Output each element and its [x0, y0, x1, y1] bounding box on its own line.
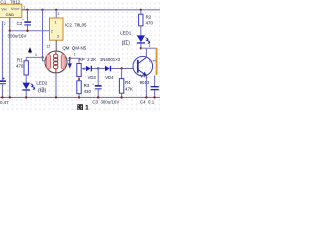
svg-text:VIN: VIN — [1, 6, 7, 11]
wire VD4 to base — [111, 68, 133, 70]
svg-text:VOUT: VOUT — [11, 6, 20, 11]
svg-text:3: 3 — [57, 35, 59, 39]
svg-text:C1 7812: C1 7812 — [0, 0, 20, 5]
svg-text:(绿): (绿) — [38, 87, 47, 94]
socket arrow down (right) — [68, 59, 71, 68]
node rail junction C — [140, 9, 142, 11]
svg-text:LED1: LED1 — [120, 31, 132, 36]
wire sensor bottom to ground rail — [55, 73, 57, 97]
wire RP bottom to R3 — [78, 77, 80, 81]
resistor R4 — [119, 69, 123, 98]
wire collector lead — [145, 48, 147, 57]
wire emitter to ground rail — [145, 76, 147, 98]
svg-text:C2: C2 — [17, 21, 23, 26]
svg-text:1: 1 — [74, 53, 76, 57]
svg-text:1: 1 — [149, 59, 151, 63]
svg-text:QM QM-N5: QM QM-N5 — [62, 45, 86, 50]
LED2 green — [22, 83, 34, 98]
resistor R2 — [139, 10, 143, 36]
svg-text:VD4: VD4 — [105, 75, 114, 80]
svg-text:LED2: LED2 — [36, 80, 48, 85]
socket arrow up (left) — [29, 48, 32, 53]
node rail junction B — [55, 9, 57, 11]
gas sensor QM-N5 — [45, 51, 67, 73]
wire junction to R1 — [26, 56, 42, 58]
node C2 bottom junction — [26, 30, 28, 32]
node LED1 junction — [140, 47, 142, 49]
wire IC2 input pin — [55, 10, 57, 18]
svg-text:300u/16V: 300u/16V — [8, 34, 27, 39]
svg-text:430: 430 — [84, 89, 92, 94]
IC1 7812 regulator box — [0, 4, 22, 17]
svg-text:9013: 9013 — [140, 80, 150, 85]
capacitor C3 — [92, 69, 102, 98]
svg-text:R2: R2 — [146, 15, 152, 20]
svg-text:2: 2 — [51, 30, 53, 34]
wire ground branch to IC2 — [10, 30, 50, 32]
svg-text:2: 2 — [4, 22, 6, 26]
diode VD4 — [98, 66, 111, 72]
potentiometer RP — [77, 64, 86, 77]
svg-text:1: 1 — [149, 44, 151, 48]
wire +12V drop to sensor node — [42, 10, 44, 58]
node RP/R3 junction — [78, 78, 80, 80]
svg-text:C3 300u/16V: C3 300u/16V — [92, 100, 119, 105]
wire junction to sensor left pin — [43, 57, 46, 60]
node sensor-left junction — [41, 56, 43, 58]
resistor R3 — [77, 81, 81, 98]
resistor R1 — [24, 57, 28, 82]
capacitor C4 — [151, 75, 159, 97]
svg-text:1: 1 — [23, 5, 25, 9]
wire IC2 output to sensor heater — [55, 40, 57, 51]
svg-text:1: 1 — [55, 21, 57, 25]
svg-text:470: 470 — [146, 21, 154, 26]
node rail dots — [1, 96, 156, 98]
node VOUT junction — [26, 9, 28, 11]
svg-text:12: 12 — [46, 44, 50, 48]
transistor VT1 — [133, 56, 153, 76]
wire VOUT stub — [22, 9, 28, 11]
wire ground rail drop — [9, 31, 11, 98]
svg-text:IC2 78L05: IC2 78L05 — [65, 23, 87, 28]
load bar (cropped element) — [149, 48, 157, 75]
svg-text:1: 1 — [57, 12, 59, 16]
wire +12V top rail — [28, 9, 161, 11]
svg-text:(红): (红) — [122, 40, 131, 47]
svg-text:+: + — [22, 18, 24, 22]
IC2 78L05 box — [50, 18, 64, 40]
wire LED1 to load — [141, 47, 156, 49]
wire 7812 GND lead — [9, 18, 11, 31]
node base junction — [120, 67, 122, 69]
LED1 red — [137, 35, 150, 48]
svg-text:R3: R3 — [84, 83, 90, 88]
svg-text:+: + — [92, 82, 94, 86]
node GND junction — [9, 30, 11, 32]
svg-text:47K: 47K — [125, 87, 133, 92]
node sensor-right junction — [69, 57, 71, 59]
diode VD3 — [86, 66, 98, 72]
svg-text:470: 470 — [16, 63, 24, 68]
svg-text:C4 0.1: C4 0.1 — [140, 99, 155, 104]
svg-text:R1: R1 — [17, 57, 23, 62]
svg-text:图 1: 图 1 — [77, 102, 89, 110]
capacitor C2 — [22, 10, 31, 31]
node rail junction A — [41, 9, 43, 11]
wire left input line with cap C1 — [0, 21, 6, 97]
svg-text:GND: GND — [6, 12, 15, 17]
svg-text:RP 2.2K 1N4001×2: RP 2.2K 1N4001×2 — [79, 57, 121, 62]
svg-text:1: 1 — [35, 53, 37, 57]
svg-text:0.47: 0.47 — [0, 100, 9, 105]
svg-text:VD3: VD3 — [88, 75, 97, 80]
node diode junction — [97, 67, 99, 69]
wire junction to RP — [70, 58, 79, 63]
svg-text:VT1: VT1 — [140, 74, 148, 79]
svg-text:R4: R4 — [125, 80, 131, 85]
wire ground bottom rail — [0, 96, 160, 98]
wire sensor right pin — [67, 58, 70, 60]
